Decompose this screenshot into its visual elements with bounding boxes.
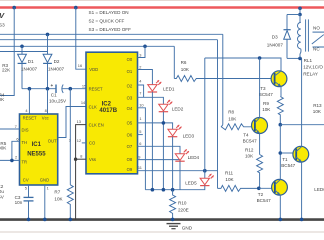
wire bus L4: [0, 51, 48, 53]
relay contact NO: [313, 25, 324, 32]
svg-text:100K: 100K: [0, 146, 7, 151]
frame bottom light line: [0, 231, 324, 233]
wire O0 to L3: [138, 46, 146, 57]
svg-text:10u,25V: 10u,25V: [49, 98, 67, 103]
node T2-ground: [279, 218, 283, 222]
node R11-R12-T2: [257, 187, 261, 191]
svg-text:S2 = QUICK OFF: S2 = QUICK OFF: [89, 19, 125, 24]
svg-text:16: 16: [78, 63, 82, 68]
svg-text:NC: NC: [313, 47, 320, 52]
svg-text:GND: GND: [182, 226, 193, 231]
svg-text:2: 2: [15, 155, 17, 160]
diode D3: [267, 15, 291, 59]
wire IC1 DIS stub: [0, 128, 20, 130]
resistor R13 label (clipped): [313, 103, 322, 114]
svg-text:S1 = DELAYED ON: S1 = DELAYED ON: [89, 10, 129, 15]
wire Vss stub (black): [76, 158, 86, 160]
svg-text:C3: C3: [15, 195, 21, 200]
resistor R11: [218, 170, 259, 191]
wire T1 emitter to ground: [301, 162, 303, 220]
wire T4 emitter to R12: [259, 133, 261, 154]
svg-text:NE555: NE555: [27, 151, 46, 157]
relay RL1 coil: [298, 15, 324, 77]
wire bus L1: [0, 33, 223, 35]
svg-text:R8: R8: [228, 109, 234, 114]
svg-text:LED3: LED3: [183, 133, 195, 138]
node R9-T1base-R13: [279, 123, 283, 127]
svg-text:4017B: 4017B: [99, 108, 117, 114]
wire IC2 CLK EN + Vss ground (black): [76, 125, 86, 220]
wire O3 to LED2: [138, 97, 164, 104]
svg-text:13: 13: [77, 119, 81, 124]
node bus-LED1: [151, 188, 155, 192]
svg-text:12: 12: [77, 138, 81, 143]
wire R13 line to edge: [280, 124, 324, 126]
svg-text:O5: O5: [127, 121, 133, 126]
svg-text:O6: O6: [127, 133, 133, 138]
svg-text:10K: 10K: [262, 107, 271, 112]
svg-text:O4: O4: [127, 106, 133, 111]
wire O2 jog: [138, 85, 144, 97]
svg-text:GND: GND: [40, 178, 49, 183]
svg-text:10K: 10K: [245, 154, 254, 159]
LED LED1: [148, 80, 175, 92]
wire LED4 cathode down: [179, 161, 181, 189]
node rail-VDD junction: [74, 6, 78, 10]
IC1 NE555: [20, 114, 58, 185]
diode D2: [43, 34, 64, 88]
svg-text:1N4007: 1N4007: [267, 42, 284, 47]
wire T3 emitter to R9: [280, 86, 282, 96]
diode D1: [18, 46, 38, 88]
svg-text:CLK EN: CLK EN: [89, 122, 104, 127]
svg-text:10u: 10u: [0, 189, 4, 194]
wire D3 bottom to relay node: [287, 57, 300, 59]
svg-text:O9: O9: [127, 167, 133, 172]
IC2 4017B: [86, 52, 138, 174]
resistor R8: [221, 109, 251, 129]
LED LED3: [168, 125, 195, 138]
LED LED5: [185, 174, 214, 186]
svg-text:VDD: VDD: [89, 67, 98, 72]
svg-text:22K: 22K: [2, 68, 11, 73]
wire bus L2: [0, 39, 218, 41]
node L1-D2 junction: [46, 33, 50, 37]
svg-text:BC547: BC547: [259, 92, 273, 97]
svg-text:8: 8: [80, 153, 82, 158]
node IC1GND-ground: [43, 218, 47, 222]
wire reset row right of C1: [62, 88, 86, 90]
wire O5 to LED3: [138, 123, 173, 129]
capacitor C1: [49, 83, 67, 104]
svg-text:11: 11: [138, 165, 142, 170]
svg-text:8: 8: [45, 108, 47, 113]
svg-text:R7: R7: [54, 189, 60, 194]
svg-text:D2: D2: [54, 59, 60, 64]
wire T1 collector to relay: [301, 58, 303, 146]
svg-text:O7: O7: [127, 144, 133, 149]
svg-text:T3: T3: [260, 86, 266, 91]
wire T2 collector up to T1 base node: [279, 125, 281, 180]
node reset-D2-pin8: [46, 87, 50, 91]
svg-text:OUT: OUT: [48, 139, 57, 144]
node bus-LED3-R10: [171, 188, 175, 192]
svg-text:10K: 10K: [313, 109, 322, 114]
wire rail to relay top: [299, 8, 301, 15]
svg-text:CO: CO: [89, 141, 96, 146]
svg-text:10K: 10K: [181, 67, 190, 72]
transistor T4: [243, 118, 268, 144]
svg-text:O1: O1: [127, 69, 133, 74]
svg-text:10n: 10n: [15, 200, 23, 205]
positive supply rail (red): [0, 6, 324, 8]
wire T3 collector line: [205, 58, 281, 71]
node relay top split: [298, 13, 302, 17]
capacitor C2 labels (component off-image left): [0, 184, 5, 200]
svg-text:IC1: IC1: [32, 142, 42, 148]
svg-text:TH: TH: [22, 140, 28, 145]
node rail-relay junction: [298, 7, 302, 11]
svg-text:RESET: RESET: [23, 116, 37, 121]
wire T1 base: [280, 152, 296, 154]
node C3-ground: [27, 218, 31, 222]
wire O6 stub: [138, 134, 143, 136]
svg-text:1N4007: 1N4007: [21, 67, 38, 72]
node T1-ground: [300, 218, 304, 222]
svg-text:R11: R11: [225, 170, 234, 175]
wire LED2 cathode down: [162, 112, 164, 190]
resistor R6: [174, 60, 274, 82]
svg-text:DIS: DIS: [22, 128, 29, 133]
svg-text:+: +: [51, 83, 54, 88]
svg-text:D3: D3: [272, 34, 278, 39]
wire L1 drop to R8: [222, 34, 224, 124]
svg-text:TR: TR: [22, 159, 28, 164]
wire O7 to LED4: [138, 146, 181, 154]
wire LED3 cathode down: [172, 137, 174, 190]
svg-text:7: 7: [15, 124, 17, 129]
svg-text:1: 1: [47, 185, 49, 190]
svg-text:T1: T1: [282, 157, 288, 162]
svg-text:RESET: RESET: [89, 86, 103, 91]
svg-text:R12: R12: [245, 147, 254, 152]
frame top light line: [0, 0, 324, 2]
svg-text:T2: T2: [258, 192, 264, 197]
wire IC1 GND stub: [44, 185, 46, 220]
svg-text:R6: R6: [181, 60, 187, 65]
svg-text:D1: D1: [28, 59, 34, 64]
svg-text:LED1: LED1: [163, 87, 175, 92]
ground rail: [0, 218, 324, 221]
wire T4 collector up: [259, 58, 261, 118]
svg-text:O0: O0: [127, 57, 133, 62]
svg-text:IC2: IC2: [102, 102, 112, 108]
node TH-TR junction: [10, 159, 14, 163]
node CLKEN-Vss tie: [74, 158, 77, 161]
LED LED2: [159, 100, 184, 112]
svg-text:7: 7: [139, 90, 141, 95]
svg-text:LED5: LED5: [185, 180, 197, 185]
node bus-LED2: [162, 188, 166, 192]
svg-text:12V,1C/O: 12V,1C/O: [303, 64, 323, 69]
svg-text:O3: O3: [127, 96, 133, 101]
svg-text:CV: CV: [23, 178, 29, 183]
svg-text:CLK: CLK: [89, 104, 97, 109]
svg-text:BC547: BC547: [257, 198, 271, 203]
wire T2 base: [259, 187, 275, 189]
svg-text:220E: 220E: [178, 208, 189, 213]
transistor T2: [257, 179, 288, 203]
svg-text:O2: O2: [127, 84, 133, 89]
wire bus L3: [0, 45, 174, 47]
ground symbol GND: [167, 224, 193, 231]
wire relay top split: [287, 14, 300, 16]
svg-text:5: 5: [139, 129, 141, 134]
svg-text:LED2: LED2: [172, 106, 184, 111]
wire O4 to cathode bus: [138, 108, 146, 190]
svg-text:LED6: LED6: [314, 187, 324, 192]
svg-text:NO: NO: [313, 25, 320, 30]
svg-text:C1: C1: [51, 93, 57, 98]
wire IC2 CO stub: [82, 142, 86, 144]
wire reset row: [22, 88, 56, 90]
svg-text:R10: R10: [178, 200, 187, 205]
svg-text:10K: 10K: [225, 177, 234, 182]
resistor R7: [54, 185, 73, 220]
svg-text:S3: S3: [0, 23, 5, 28]
wire L3 drop to R6: [173, 46, 175, 78]
node O9-LED5: [203, 169, 207, 173]
relay armature: [312, 35, 324, 44]
svg-text:Vcc: Vcc: [42, 116, 49, 121]
node T1 base junction: [279, 151, 283, 155]
wire IC1 pin8 stub: [47, 89, 49, 114]
resistor R10: [170, 190, 189, 220]
wire IC1 pin4 stub: [28, 89, 30, 114]
svg-text:10K: 10K: [228, 117, 237, 122]
node reset-pin4: [28, 87, 32, 91]
node L3-O0 junction: [143, 45, 147, 49]
resistor R12: [245, 147, 263, 188]
wire IC1 TR line: [0, 159, 20, 161]
LED LED4: [175, 149, 199, 161]
svg-text:6: 6: [139, 141, 141, 146]
svg-text:Vss: Vss: [89, 157, 96, 162]
wire IC1 OUT to IC2 CLK: [58, 107, 86, 138]
wire T2 emitter to ground: [279, 195, 281, 220]
svg-text:RELAY: RELAY: [303, 71, 318, 76]
wire LED5 cathode to bus: [145, 186, 204, 190]
svg-text:9: 9: [138, 154, 140, 159]
wire LED5 feed vertical: [204, 58, 206, 171]
svg-text:BC547: BC547: [243, 138, 257, 143]
node relay bottom: [298, 57, 302, 61]
svg-text:O8: O8: [127, 157, 133, 162]
transistor T1: [281, 146, 308, 168]
svg-text:RL1: RL1: [304, 58, 313, 63]
svg-text:LED4: LED4: [188, 155, 200, 160]
wire L2 drop to R11: [217, 40, 219, 189]
svg-text:1N4007: 1N4007: [48, 67, 65, 72]
capacitor C3: [15, 185, 34, 220]
wire IC1 TH stub and bend: [12, 141, 20, 160]
svg-text:2: 2: [139, 64, 141, 69]
relay contact NC: [313, 47, 324, 52]
node O5-LED2: [162, 121, 166, 125]
svg-text:3: 3: [139, 52, 141, 57]
svg-text:R9: R9: [263, 101, 269, 106]
node rail-left junction: [12, 6, 16, 10]
node T4 collector junction: [258, 56, 262, 60]
node R10-ground: [171, 218, 175, 222]
node reset-R7: [69, 87, 73, 91]
wire from rail down left: [0, 8, 14, 96]
svg-text:R13: R13: [313, 103, 322, 108]
svg-text:BC547: BC547: [281, 163, 295, 168]
svg-text:5: 5: [25, 185, 27, 190]
svg-text:10K: 10K: [54, 196, 63, 201]
wire O9 line: [138, 170, 218, 172]
wire O8 to LED4 cathode: [138, 159, 181, 161]
node L3-D1 junction: [20, 45, 24, 49]
transistor T3: [259, 71, 287, 97]
svg-text:T4: T4: [243, 132, 249, 137]
resistor R9: [262, 97, 283, 125]
wire rail to IC2 VDD: [76, 8, 86, 70]
wire R7 vertical: [69, 89, 71, 185]
wire LED5 anode: [204, 171, 206, 179]
node R7-ground: [69, 218, 73, 222]
wire O1 to LED1: [138, 70, 153, 85]
wire LED1 cathode down: [151, 92, 153, 190]
svg-text:1: 1: [139, 116, 141, 121]
svg-text:S3 = DELAYED OFF: S3 = DELAYED OFF: [89, 27, 132, 32]
svg-text:6: 6: [16, 137, 18, 142]
